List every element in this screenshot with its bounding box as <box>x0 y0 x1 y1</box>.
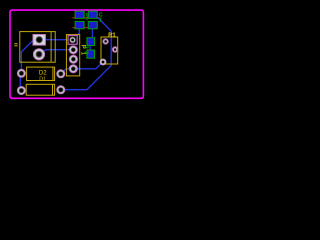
C3 pad 2 (round) <box>33 49 44 60</box>
P1 pad 1 (square) <box>68 36 77 45</box>
capacitor C1 SMD pad top-right <box>88 11 97 18</box>
P1 pad 3 <box>69 55 77 63</box>
svg-text:R1: R1 <box>108 33 116 39</box>
svg-text:1: 1 <box>99 17 102 23</box>
P1 pad 4 <box>69 65 77 73</box>
P1 pad 2 <box>69 46 77 54</box>
svg-text:3: 3 <box>83 51 89 54</box>
wire: blue trace C-pad BL down-diag to P1.1 <box>73 25 80 40</box>
wire: blue trace pad A to pad B <box>89 46 91 51</box>
R1 pad 3 <box>100 59 106 65</box>
background <box>0 0 153 108</box>
red top-layer trace row 2 <box>72 27 88 29</box>
C3 pad 1 (square) <box>33 35 45 46</box>
board outline (keepout) <box>10 10 143 98</box>
net label C1 (green, vertical) <box>99 12 103 23</box>
wire: blue trace C3.2 diag to P1.2 <box>39 50 73 55</box>
D2 pad 1 <box>17 69 25 77</box>
diode D2 body outline <box>27 67 55 80</box>
SMD pad B <box>87 50 95 58</box>
R1 pad 2 <box>112 47 117 52</box>
wire: blue trace D2.2 diag to P1.4 then to R1.3 <box>61 62 103 74</box>
svg-text:3: 3 <box>83 46 89 49</box>
R1 pad 1 <box>103 39 108 44</box>
wire: blue trace D2.1 to D1.1 <box>19 77 21 87</box>
SMD pad A <box>87 38 95 46</box>
diode D1 body outline <box>26 84 54 95</box>
C3 designator text ticks <box>14 43 17 46</box>
svg-text:D1: D1 <box>39 77 46 83</box>
capacitor C3 body outline <box>20 32 55 63</box>
connector P1 body outline <box>66 35 79 76</box>
capacitor C1 SMD pad bottom-right <box>88 21 97 28</box>
resistor R1 body outline <box>101 37 118 64</box>
D2 pad 2 <box>57 70 65 78</box>
wire: blue trace D2.1 up-diag to C3.1 then to P1.1 <box>21 40 73 73</box>
red top-layer trace row 1 <box>72 17 99 19</box>
svg-text:D2: D2 <box>39 71 47 77</box>
D1 pad 2 <box>57 86 65 94</box>
wire: blue trace C-pad BR down to pad A <box>91 29 93 39</box>
capacitor C2 SMD pad top-left <box>75 11 84 18</box>
net label C2 (green, vertical) <box>86 12 89 21</box>
capacitor C2 SMD pad bottom-left <box>75 21 84 28</box>
D1 pad 1 <box>17 87 25 95</box>
wire: blue trace C-pad TR diag down, vertical, diag to D1.2 <box>64 18 111 90</box>
